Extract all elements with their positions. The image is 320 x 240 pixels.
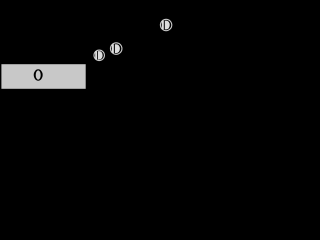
node D2 letter stem bbox=[112, 44, 114, 53]
node O box bbox=[1, 64, 85, 89]
node D3 letter bowl bbox=[165, 21, 170, 30]
node D1 letter bowl bbox=[98, 51, 103, 59]
node D3 ring bbox=[160, 19, 171, 30]
node D1 letter stem bbox=[95, 51, 97, 59]
node D1 ring bbox=[94, 50, 105, 61]
node D3 letter stem bbox=[162, 21, 164, 30]
node D2 bbox=[110, 43, 122, 55]
node D3 bbox=[160, 19, 171, 30]
node D1 bbox=[94, 50, 105, 61]
node O label bbox=[34, 69, 43, 80]
node D2 letter bowl bbox=[115, 44, 120, 53]
node D2 ring bbox=[110, 43, 122, 55]
